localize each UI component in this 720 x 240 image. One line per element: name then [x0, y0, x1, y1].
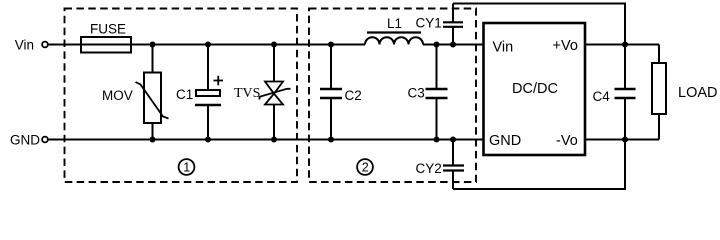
node junction C2 bottom — [328, 137, 334, 143]
varistor MOV — [102, 45, 169, 140]
resistor LOAD — [652, 45, 718, 140]
capacitor C1 (polarized) — [176, 45, 223, 140]
capacitor CY2 (Y-cap) — [416, 140, 465, 190]
node junction C1 top — [205, 42, 211, 48]
node junction C1 bottom — [205, 137, 211, 143]
svg-text:-Vo: -Vo — [556, 133, 578, 149]
fuse FUSE — [81, 22, 131, 53]
svg-text:C1: C1 — [176, 87, 193, 102]
node Vin (input terminal) — [15, 37, 48, 52]
svg-text:C4: C4 — [593, 89, 611, 104]
node junction C3 bottom — [434, 137, 440, 143]
node junction TVS bottom — [271, 137, 277, 143]
svg-text:MOV: MOV — [102, 88, 133, 103]
svg-text:GND: GND — [10, 133, 40, 148]
node junction MOV top — [150, 42, 156, 48]
svg-text:CY2: CY2 — [416, 161, 442, 176]
svg-text:C3: C3 — [408, 86, 425, 101]
svg-text:Vin: Vin — [493, 40, 514, 56]
svg-text:1: 1 — [183, 161, 190, 175]
svg-text:LOAD: LOAD — [678, 85, 718, 101]
node junction CY1 bottom — [450, 42, 456, 48]
svg-text:C2: C2 — [345, 88, 362, 103]
wire CY1 top rail to +Vo node — [453, 4, 625, 45]
inductor L1 — [365, 16, 423, 45]
capacitor C3 — [408, 45, 448, 140]
node junction C3 top — [434, 42, 440, 48]
converter module U1 DC/DC — [484, 23, 586, 155]
capacitor C2 — [320, 45, 362, 140]
node junction C4 bottom (-Vo) — [622, 137, 628, 143]
svg-text:TVS: TVS — [234, 86, 260, 101]
svg-text:L1: L1 — [387, 16, 402, 31]
svg-text:2: 2 — [362, 161, 369, 175]
capacitor CY1 (Y-cap) — [416, 4, 464, 45]
wire -Vo rail (DC/DC to load) — [585, 139, 659, 141]
TVS diode (bidirectional) — [234, 45, 291, 140]
wire +Vo rail (DC/DC to load) — [585, 44, 659, 46]
node junction TVS top — [271, 42, 277, 48]
svg-text:+Vo: +Vo — [553, 38, 578, 54]
svg-text:DC/DC: DC/DC — [512, 81, 558, 97]
capacitor C4 — [593, 45, 636, 140]
wire Vin rail (L1 to DC/DC Vin pin) — [423, 44, 484, 46]
stage label 1 (circled) — [179, 159, 195, 175]
node junction MOV bottom — [150, 137, 156, 143]
svg-text:Vin: Vin — [15, 37, 34, 52]
svg-text:CY1: CY1 — [416, 15, 442, 30]
node junction C4 top (+Vo) — [622, 42, 628, 48]
node junction CY2 top — [450, 137, 456, 143]
node junction C2 top — [328, 42, 334, 48]
wire Vin rail (terminal to L1) — [49, 44, 366, 46]
stage label 2 (circled) — [357, 159, 373, 175]
wire GND rail (terminal to DC/DC GND pin) — [48, 139, 484, 141]
stage 1 boundary (input protection dashed box) — [65, 9, 298, 183]
svg-text:FUSE: FUSE — [90, 22, 126, 37]
wire CY2 bottom rail to -Vo node — [453, 140, 625, 190]
svg-text:GND: GND — [489, 133, 521, 149]
stage 2 boundary (filter dashed box) — [309, 9, 476, 183]
node GND (input terminal) — [10, 133, 48, 148]
